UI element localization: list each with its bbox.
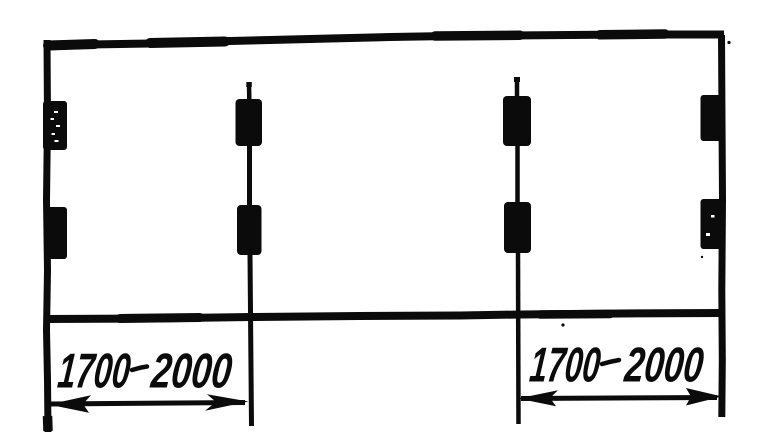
- arrowhead left-right: [205, 394, 249, 410]
- wire: left vertical support line: [47, 40, 49, 432]
- svg-text:2000: 2000: [622, 339, 706, 393]
- arrowhead right-left: [518, 390, 558, 406]
- insulator: post 3 lower block: [504, 202, 531, 253]
- wire: post 2 lower line: [250, 255, 252, 426]
- dimension line right: [521, 398, 717, 399]
- dash (left): [132, 367, 147, 371]
- svg-text:1700: 1700: [527, 339, 603, 393]
- wire: post 2 connector: [247, 146, 252, 206]
- dash (right): [602, 360, 619, 364]
- insulator: post 2 lower block: [237, 205, 262, 255]
- insulator: post 2 upper block: [236, 99, 263, 146]
- wire: middle horizontal line: [45, 313, 723, 319]
- node B: post 3 stem: [515, 78, 520, 98]
- dimension line left: [50, 403, 245, 405]
- arrowhead right-right: [686, 388, 722, 406]
- wire: right vertical support line: [722, 35, 723, 417]
- svg-text:1700: 1700: [55, 345, 133, 399]
- wire: top line thickness bumps: [150, 42, 225, 44]
- wire: top horizontal line: [45, 35, 724, 47]
- insulator: right wall upper block: [701, 95, 725, 141]
- wire: left support bottom blob: [43, 416, 53, 431]
- insulator: left wall upper block (hatched): [43, 101, 67, 150]
- arrowhead left-left: [49, 395, 92, 412]
- wire: mid line thickness bumps: [120, 318, 200, 319]
- svg-text:2000: 2000: [148, 345, 234, 399]
- node A: post 2 stem: [247, 83, 252, 101]
- wire: post 3 lower line: [516, 253, 521, 424]
- insulator: right wall lower block: [701, 199, 725, 249]
- wire: post 3 connector: [515, 146, 520, 202]
- insulator: post 3 upper block: [503, 96, 531, 146]
- speckle dots: [561, 323, 564, 326]
- insulator: left wall lower block: [44, 207, 67, 259]
